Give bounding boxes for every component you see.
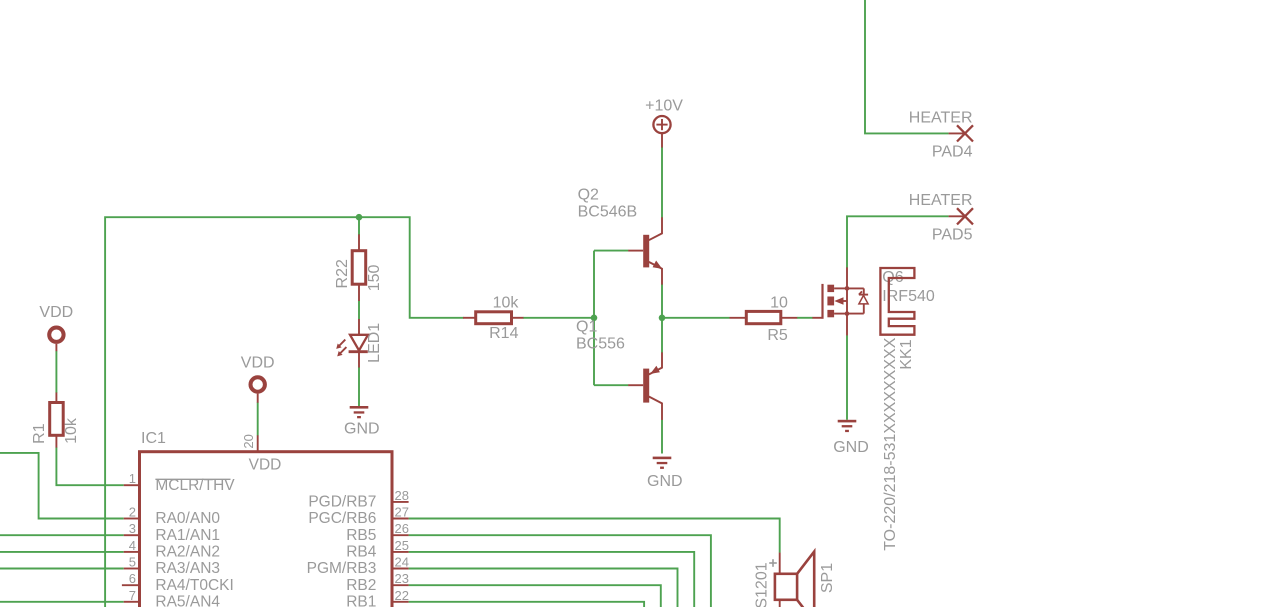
wire VDD to R1 (55, 351, 57, 393)
svg-text:PGM/RB3: PGM/RB3 (307, 560, 377, 577)
IC1 pin 24 PGM/RB3 (307, 555, 409, 578)
wire pin7 net (0, 601, 124, 603)
svg-text:RB5: RB5 (346, 527, 376, 544)
wire R1 to pin1 (56, 447, 123, 485)
IC1 pin 6 RA4/T0CKI (122, 571, 234, 594)
svg-text:10: 10 (770, 294, 788, 311)
svg-text:RA0/AN0: RA0/AN0 (155, 510, 220, 527)
svg-text:S1201: S1201 (754, 562, 771, 607)
svg-text:R1: R1 (31, 423, 48, 444)
svg-text:VDD: VDD (39, 304, 73, 321)
svg-text:RA2/AN2: RA2/AN2 (155, 544, 220, 561)
svg-text:GND: GND (344, 420, 380, 437)
svg-text:10k: 10k (63, 417, 80, 444)
svg-text:28: 28 (395, 488, 409, 503)
svg-text:3: 3 (129, 521, 136, 536)
svg-text:RB4: RB4 (346, 544, 377, 561)
svg-text:RB2: RB2 (346, 577, 376, 594)
svg-text:IRF540: IRF540 (882, 288, 935, 305)
svg-text:RB1: RB1 (346, 593, 376, 607)
svg-text:4: 4 (129, 538, 136, 553)
wire pin23 net (409, 585, 661, 607)
wire R14 to base bus (523, 317, 594, 319)
IC1 pin 2 RA0/AN0 (124, 505, 221, 528)
wire R22 to LED1 (358, 301, 360, 320)
svg-text:PAD4: PAD4 (932, 144, 973, 161)
body diode of Q6 (847, 287, 864, 289)
svg-text:SP1: SP1 (819, 563, 836, 593)
IC1 pin 25 RB4 (346, 538, 409, 561)
svg-text:PGC/RB6: PGC/RB6 (308, 510, 376, 527)
svg-text:RA3/AN3: RA3/AN3 (155, 560, 220, 577)
wire VDD to pin20 (257, 402, 259, 435)
LED LED1 (336, 319, 383, 368)
IC1 PIC microcontroller box (140, 430, 393, 607)
wire Q2 base (594, 250, 628, 252)
svg-text:Q1: Q1 (576, 319, 597, 336)
svg-text:10k: 10k (493, 295, 520, 312)
svg-text:VDD: VDD (241, 355, 275, 372)
supply +10V symbol (645, 98, 683, 148)
svg-text:R14: R14 (489, 325, 518, 342)
svg-text:5: 5 (129, 555, 136, 570)
wire MOSFET source to GND (846, 335, 848, 420)
svg-text:150: 150 (366, 264, 383, 291)
node junction dot R22 top (356, 214, 363, 221)
svg-text:LED1: LED1 (366, 323, 383, 363)
wire pin27 net to speaker (409, 519, 780, 553)
wire pin24 net (409, 569, 678, 607)
svg-text:R5: R5 (767, 327, 788, 344)
wire pin25 net (409, 552, 695, 607)
wire PAD5 net (847, 216, 949, 267)
resistor R1 (31, 393, 80, 448)
plus polarity mark (769, 559, 777, 567)
svg-text:26: 26 (395, 521, 409, 536)
wire pin2 net (0, 453, 124, 519)
wire PAD4 net (865, 0, 949, 133)
svg-text:R22: R22 (334, 259, 351, 288)
ground symbol GND (Q1) (647, 457, 683, 490)
wire net N$1 top horizontal (105, 217, 463, 607)
svg-text:HEATER: HEATER (909, 109, 973, 126)
svg-text:20: 20 (241, 434, 256, 448)
svg-text:1: 1 (129, 471, 136, 486)
speaker SP1 S1201 (754, 552, 837, 607)
svg-text:6: 6 (129, 571, 136, 586)
resistor R14 value 10k (463, 295, 523, 342)
svg-text:PGD/RB7: PGD/RB7 (308, 494, 376, 511)
svg-text:TO-220/218-531XXXXXXXXX: TO-220/218-531XXXXXXXXX (882, 337, 899, 550)
svg-text:RA5/AN4: RA5/AN4 (155, 593, 220, 607)
svg-text:GND: GND (833, 439, 869, 456)
wire pin4 net (0, 551, 124, 553)
svg-text:KK1: KK1 (898, 339, 915, 369)
wire pin26 net (409, 535, 711, 607)
IC1 pin 7 RA5/AN4 (124, 588, 221, 607)
svg-text:GND: GND (647, 473, 683, 490)
svg-text:HEATER: HEATER (909, 192, 973, 209)
svg-text:24: 24 (395, 555, 409, 570)
wire emitter net vertical (661, 284, 663, 353)
wire pin3 net (0, 534, 124, 536)
wire Q1 collector to GND (661, 420, 663, 454)
pin 20 VDD (257, 435, 259, 451)
node junction dot emitter (659, 315, 666, 322)
resistor R22 (334, 234, 383, 301)
svg-text:2: 2 (129, 505, 136, 520)
ground symbol GND (Q6 source) (833, 420, 869, 456)
heatsink KK1 (880, 268, 915, 551)
IC1 pin 28 PGD/RB7 (308, 488, 409, 511)
svg-text:IC1: IC1 (141, 430, 166, 447)
svg-text:BC556: BC556 (576, 335, 625, 352)
supply VDD symbol left (39, 304, 73, 351)
svg-text:7: 7 (129, 588, 136, 603)
svg-text:MCLR/THV: MCLR/THV (155, 477, 235, 494)
IC1 pin 5 RA3/AN3 (124, 555, 220, 578)
IC1 pin 4 RA2/AN2 (124, 538, 220, 561)
svg-text:RA4/T0CKI: RA4/T0CKI (155, 577, 233, 594)
IC1 pin 27 PGC/RB6 (308, 505, 409, 528)
svg-text:27: 27 (395, 505, 409, 520)
IC1 pin 23 RB2 (346, 571, 409, 594)
supply VDD symbol (pin 20) (241, 355, 275, 403)
IC1 pin 3 RA1/AN1 (124, 521, 220, 544)
node junction dot base bus (591, 315, 598, 322)
wire base bus vertical (593, 251, 595, 386)
svg-text:VDD: VDD (249, 456, 282, 473)
transistor Q2 BC546B (NPN) (578, 186, 663, 284)
svg-text:23: 23 (395, 571, 409, 586)
IC1 pin 22 RB1 (346, 588, 409, 607)
ground symbol GND (LED) (344, 406, 380, 437)
svg-text:RA1/AN1: RA1/AN1 (155, 527, 220, 544)
wire pin5 net (0, 568, 124, 570)
svg-text:PAD5: PAD5 (932, 227, 973, 244)
svg-text:BC546B: BC546B (578, 203, 638, 220)
wire +10V to Q2 collector (661, 147, 663, 218)
wire emitter to R5 (662, 317, 730, 319)
svg-text:+10V: +10V (645, 98, 683, 115)
MOSFET Q6 IRF540 (812, 267, 934, 335)
transistor Q1 BC556 (PNP) (576, 319, 663, 420)
IC1 pin 1 MCLR/THV (124, 471, 236, 494)
resistor R5 value 10 (730, 294, 798, 344)
pad PAD5 HEATER (909, 192, 973, 243)
wire R5 to gate (797, 317, 813, 319)
wire R22 top stub (358, 217, 360, 235)
svg-text:22: 22 (395, 588, 409, 603)
pad PAD4 HEATER (909, 109, 973, 160)
wire pin22 net (409, 602, 644, 607)
wire Q1 base (594, 384, 628, 386)
wire LED1 to GND (358, 367, 360, 406)
svg-text:Q2: Q2 (578, 186, 599, 203)
svg-text:25: 25 (395, 538, 409, 553)
IC1 pin 26 RB5 (346, 521, 409, 544)
